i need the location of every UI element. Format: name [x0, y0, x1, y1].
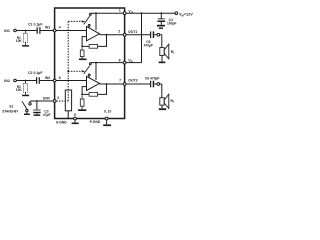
- standby switch amp2: [84, 63, 92, 78]
- capacitor C3 47uF: [33, 101, 50, 117]
- capacitor C4 100uF: [157, 13, 176, 25]
- ground below C3: [34, 114, 41, 116]
- svg-text:4: 4: [59, 26, 61, 30]
- ground amp2 internal: [78, 109, 86, 111]
- pin 4 IN1: [45, 26, 61, 32]
- svg-text:S-GND: S-GND: [56, 121, 67, 125]
- wire IN1 to C1: [16, 30, 36, 32]
- pin 7 OUT2: [119, 79, 138, 86]
- arrow standby amp1: [82, 20, 86, 22]
- speaker RL (channel 1): [160, 44, 175, 59]
- wire rail drop to amp2: [95, 63, 97, 80]
- resistor internal SVR block: [65, 90, 71, 111]
- svg-text:C6 470µF: C6 470µF: [145, 76, 160, 80]
- resistor amp1 to ground: [80, 47, 84, 58]
- svg-text:10K: 10K: [16, 88, 23, 92]
- wire C5 to output terminal: [154, 34, 157, 36]
- svg-text:IN2: IN2: [45, 76, 50, 80]
- svg-text:OUT1: OUT1: [128, 30, 137, 34]
- resistor amp2 feedback: [89, 93, 98, 97]
- dashed standby control line from pin 3: [56, 21, 81, 101]
- wire pin5 to ground: [74, 120, 76, 123]
- op-amp U1b: [87, 76, 100, 90]
- wire C1 to pin 4: [41, 30, 54, 32]
- wire pin9,10 to ground: [106, 120, 108, 124]
- svg-text:10K: 10K: [16, 39, 23, 43]
- wire pin2 to C5: [126, 34, 150, 36]
- wire pin6 to amp2: [56, 80, 87, 82]
- pin 5 S-GND: [56, 113, 76, 125]
- node IN1 input terminal: [4, 29, 16, 33]
- resistor R1 10K (dashed): [16, 31, 28, 46]
- junction fb node amp1: [81, 46, 83, 48]
- svg-text:6: 6: [59, 76, 61, 80]
- ground amp1 internal: [79, 59, 87, 61]
- op-amp U1a: [87, 27, 100, 41]
- svg-text:IN1: IN1: [4, 29, 10, 33]
- ground below C4: [157, 25, 165, 27]
- pin 9,10 P-GND: [90, 110, 112, 124]
- junction rail amp1: [95, 12, 97, 14]
- svg-text:S1: S1: [9, 104, 13, 108]
- capacitor C5 470uF: [144, 31, 155, 47]
- svg-text:IN1: IN1: [45, 26, 50, 30]
- ground pin5: [72, 123, 79, 125]
- speaker RL (channel 2): [160, 94, 175, 108]
- pin 1 VDD: [119, 8, 133, 14]
- wire SVR row: [30, 100, 53, 102]
- svg-text:9, 10: 9, 10: [104, 110, 111, 114]
- svg-text:1: 1: [119, 8, 121, 12]
- wire speaker2 to ground: [161, 105, 163, 108]
- svg-text:C2 0.1µF: C2 0.1µF: [28, 71, 43, 75]
- standby switch amp1: [84, 13, 92, 28]
- svg-text:P-GND: P-GND: [90, 120, 101, 124]
- IC block U1 outline: [55, 8, 125, 119]
- ground pin9,10: [103, 124, 111, 126]
- pin 3 SVR: [43, 96, 59, 102]
- junction C4: [160, 12, 162, 14]
- wire VDD rail amp1 to pin 1: [91, 12, 124, 14]
- wire pin7 to C6: [126, 83, 150, 85]
- svg-text:2: 2: [118, 30, 120, 34]
- wire pin1 to supply: [126, 12, 175, 14]
- wire feedback drop amp1: [98, 35, 107, 47]
- svg-text:STAND-BY: STAND-BY: [2, 109, 19, 113]
- svg-text:OUT2: OUT2: [128, 79, 137, 83]
- svg-text:8: 8: [119, 58, 121, 62]
- junction R1 top: [25, 30, 27, 32]
- wire fb resistor to inverting input amp1: [82, 37, 89, 47]
- pin 6 IN2: [45, 76, 61, 82]
- wire terminal to speaker2: [160, 84, 162, 98]
- wire C2 to pin 6: [40, 80, 53, 82]
- svg-text:3: 3: [57, 96, 59, 100]
- pin 2 OUT1: [118, 30, 137, 37]
- junction dashed line amp2 branch: [67, 70, 69, 72]
- wire drop pin1 rail to pin8: [141, 13, 143, 62]
- svg-text:SVR: SVR: [43, 96, 51, 100]
- wire IN2 to C2: [16, 80, 36, 82]
- junction rail amp2: [95, 62, 97, 64]
- pin 8 VM: [119, 58, 133, 64]
- svg-text:100µF: 100µF: [167, 21, 176, 25]
- wire C6 to output terminal 2: [154, 83, 157, 85]
- wire amp2 output: [100, 83, 124, 85]
- svg-text:7: 7: [119, 79, 121, 83]
- svg-text:C1 0.1µF: C1 0.1µF: [28, 23, 43, 27]
- junction C3 top: [36, 100, 38, 102]
- junction amp2 output: [106, 83, 108, 85]
- resistor R2 10K (dashed): [16, 81, 28, 95]
- supply terminal VM=12V: [175, 12, 193, 17]
- wire pin8 to supply drop: [126, 62, 142, 64]
- wire rail drop to amp1: [95, 13, 97, 30]
- wire speaker1 to ground: [161, 55, 163, 61]
- ground speaker1: [159, 62, 166, 64]
- svg-text:5: 5: [74, 113, 76, 117]
- switch S1 STAND-BY: [2, 101, 31, 113]
- svg-text:470µF: 470µF: [144, 43, 153, 47]
- wire rail amp2 to pin 8: [91, 62, 124, 64]
- junction amp1 output: [106, 34, 108, 36]
- wire SVR resistor to S-GND: [67, 111, 69, 119]
- wire pin4 to amp1: [56, 30, 87, 32]
- node IN2 input terminal: [4, 79, 16, 83]
- arrow standby amp2: [82, 70, 86, 72]
- wire amp1 output: [100, 34, 124, 36]
- wire terminal to speaker1: [160, 35, 162, 48]
- ground speaker2: [159, 108, 166, 110]
- ground below R1: [22, 45, 29, 47]
- junction supply to pin8 drop: [141, 12, 143, 14]
- junction fb node amp2: [81, 94, 83, 96]
- capacitor C1 0.1uF: [28, 23, 43, 34]
- node output terminal 2: [157, 83, 160, 86]
- svg-text:IN2: IN2: [4, 79, 10, 83]
- ground below R2: [22, 95, 29, 97]
- wire fb resistor to inverting input amp2: [82, 87, 89, 95]
- svg-text:47µF: 47µF: [43, 113, 51, 117]
- resistor amp1 feedback: [89, 45, 98, 49]
- resistor amp2 to ground: [80, 95, 84, 109]
- node output terminal 1: [157, 33, 160, 36]
- wire feedback drop amp2: [98, 84, 107, 94]
- capacitor C2 0.1uF: [28, 71, 43, 84]
- junction R2 top: [25, 80, 27, 82]
- ground below S1: [24, 114, 30, 116]
- capacitor C6 470uF: [145, 76, 160, 87]
